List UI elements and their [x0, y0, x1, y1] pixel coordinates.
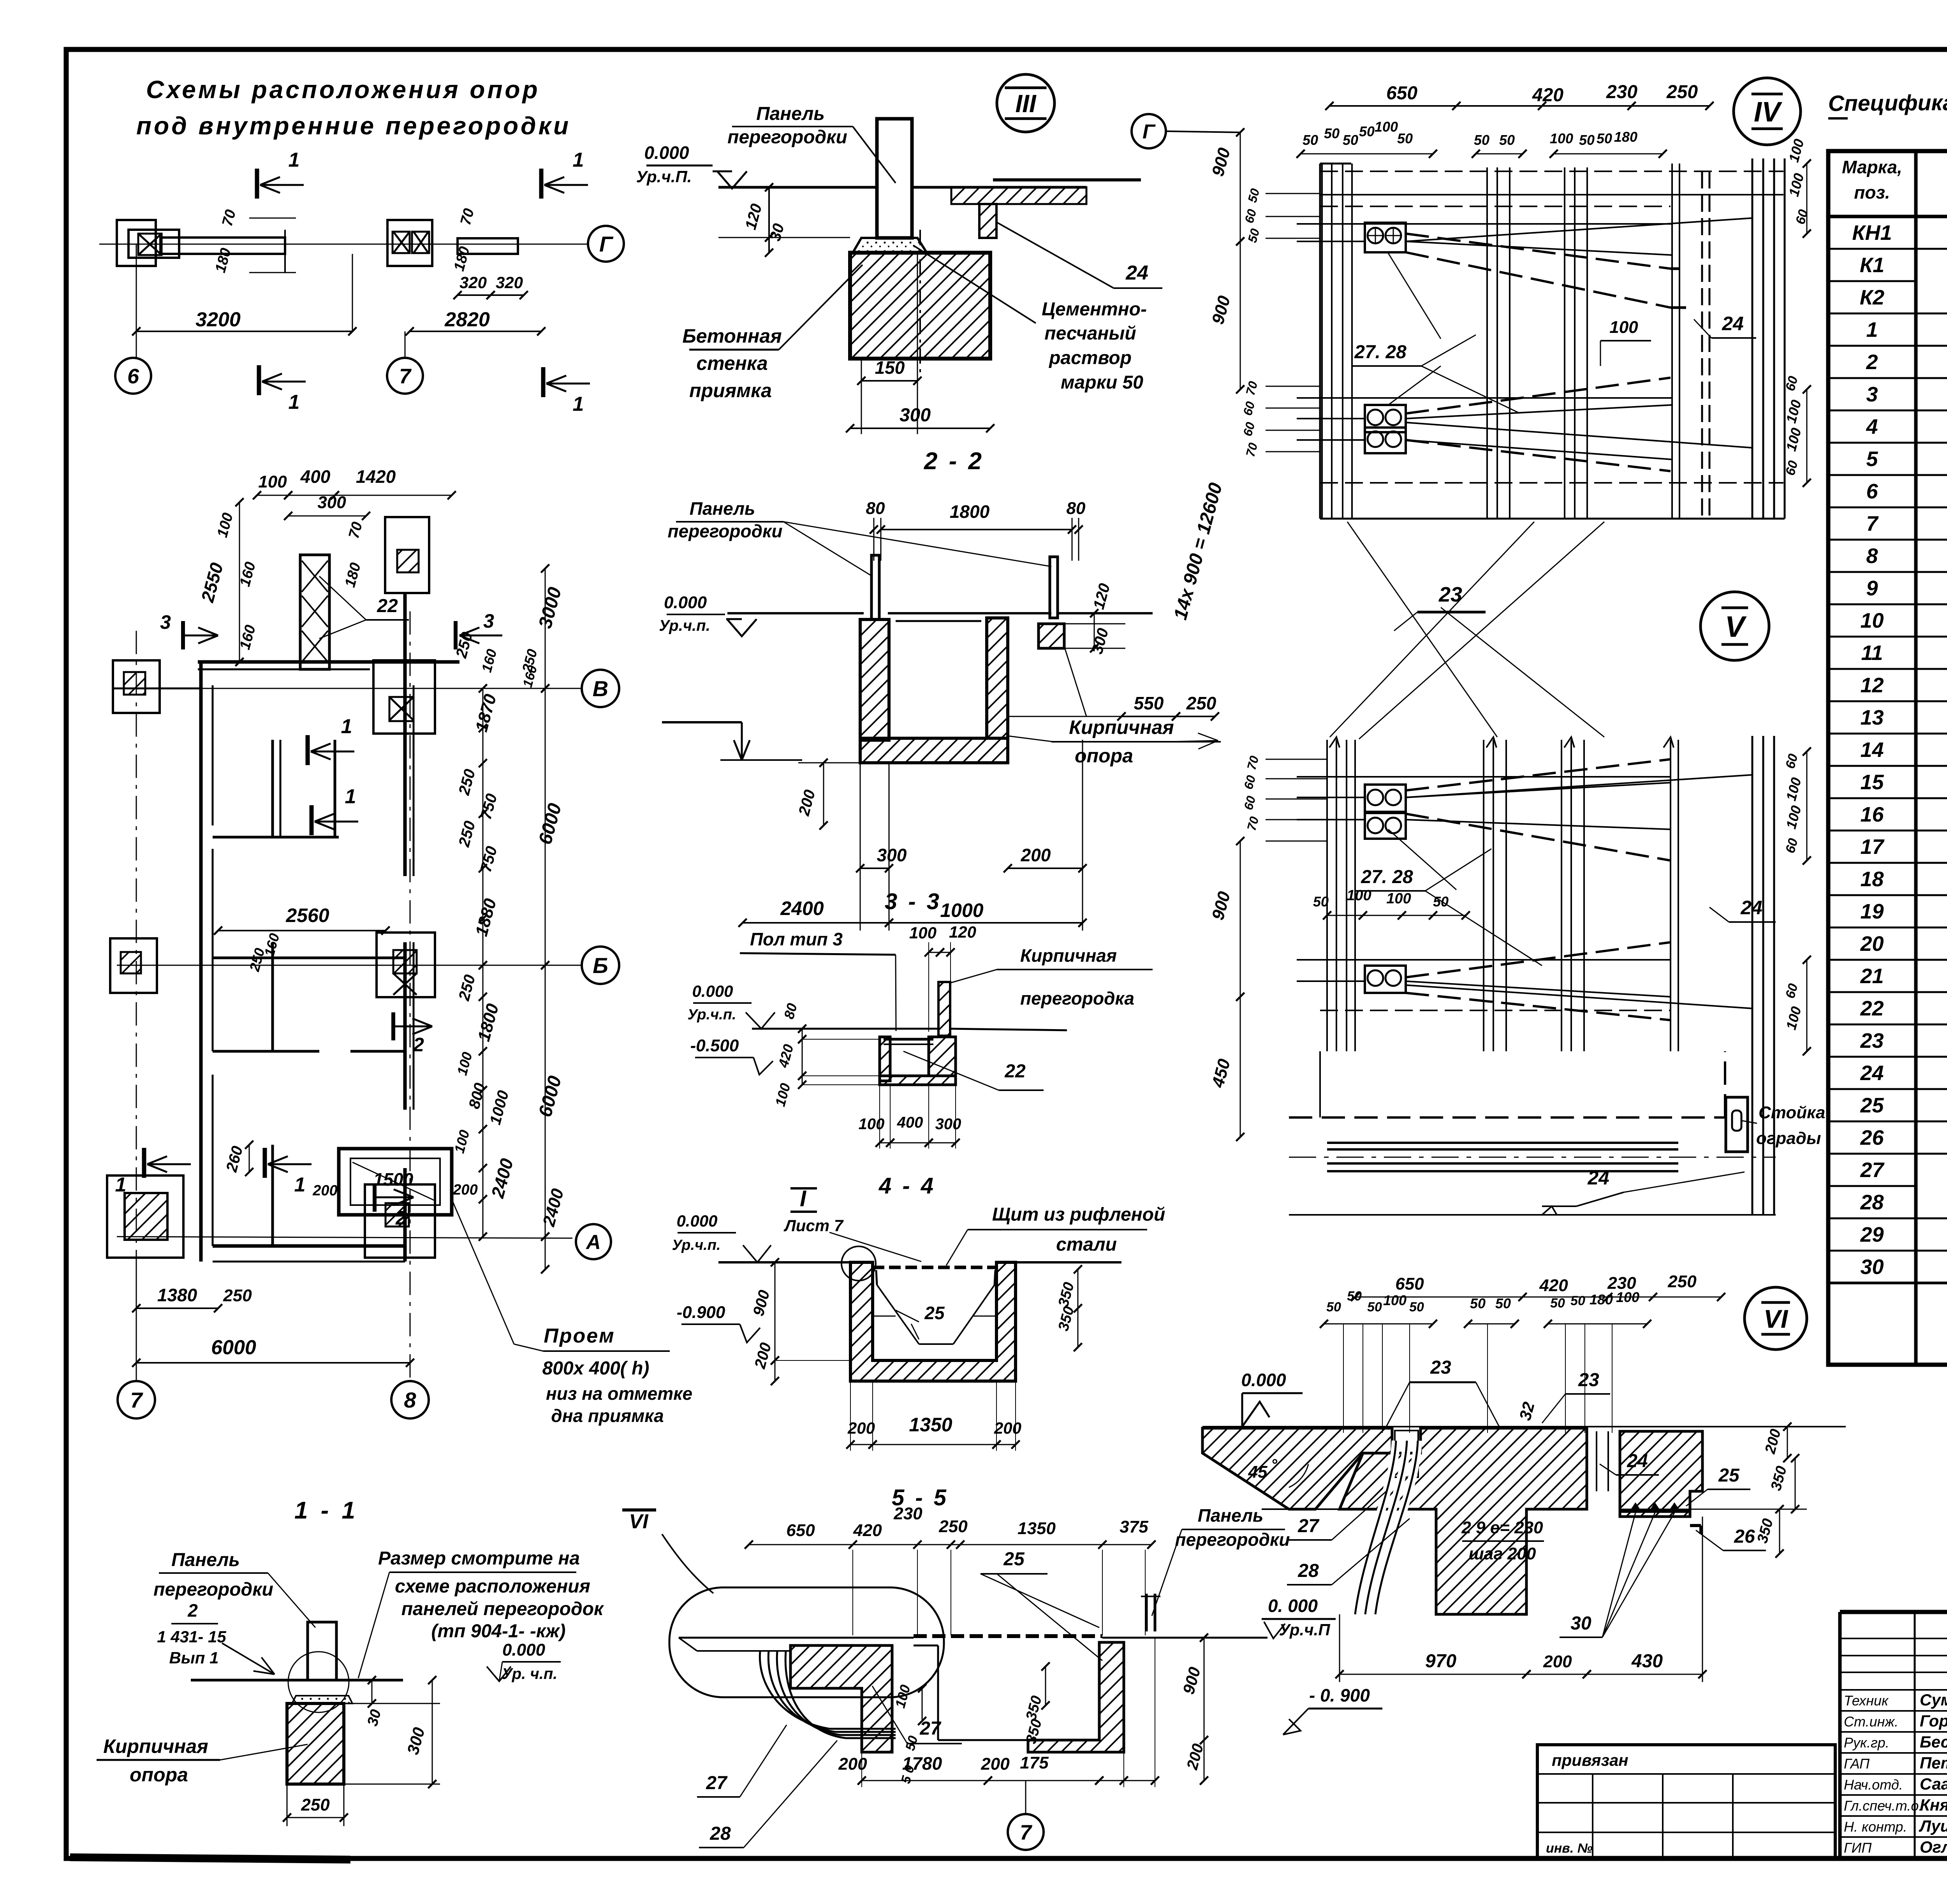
svg-text:100: 100	[859, 1116, 885, 1133]
internal partitions	[271, 740, 274, 837]
svg-text:50: 50	[1550, 1296, 1565, 1311]
A axis	[117, 1237, 572, 1238]
svg-text:18: 18	[1860, 868, 1884, 891]
svg-text:1: 1	[573, 149, 584, 171]
svg-text:26: 26	[1860, 1126, 1884, 1149]
svg-text:250: 250	[1666, 82, 1698, 102]
svg-text:Саакьянц: Саакьянц	[1920, 1775, 1947, 1793]
svg-text:550: 550	[1134, 693, 1164, 713]
A wall	[213, 1244, 405, 1248]
svg-text:17: 17	[1860, 835, 1885, 859]
svg-text:200: 200	[838, 1754, 867, 1774]
opening rect	[339, 1149, 452, 1215]
svg-text:1350: 1350	[1018, 1519, 1056, 1538]
svg-text:27. 28: 27. 28	[1361, 867, 1413, 887]
svg-text:7: 7	[399, 364, 412, 388]
svg-text:24: 24	[1860, 1061, 1884, 1085]
svg-text:50: 50	[1495, 1295, 1511, 1311]
svg-text:инв. №: инв. №	[1546, 1841, 1593, 1856]
svg-text:-0.500: -0.500	[690, 1036, 739, 1055]
IV bolt group top	[1365, 223, 1406, 252]
svg-text:28: 28	[709, 1823, 731, 1844]
svg-text:приямка: приямка	[689, 380, 772, 401]
svg-text:21: 21	[1860, 964, 1884, 988]
svg-text:Ур.ч.п.: Ур.ч.п.	[659, 617, 710, 634]
right dim chain A	[482, 688, 484, 965]
pit inner lines 5-5	[937, 1645, 939, 1740]
IV horizontal chords	[1297, 223, 1672, 225]
svg-text:24: 24	[1722, 313, 1744, 334]
svg-text:перегородка: перегородка	[1020, 988, 1134, 1008]
svg-text:10: 10	[1860, 609, 1884, 632]
pit walls 5-5	[790, 1645, 892, 1752]
svg-text:Ур.ч.п.: Ур.ч.п.	[687, 1007, 736, 1023]
svg-text:430: 430	[1631, 1651, 1663, 1672]
svg-text:стали: стали	[1056, 1234, 1117, 1255]
svg-text:45: 45	[1248, 1462, 1267, 1482]
section flag 1 bottom-right	[541, 367, 546, 397]
svg-text:50: 50	[1347, 1289, 1362, 1304]
B axis circle Б	[117, 965, 582, 966]
svg-text:0.000: 0.000	[1241, 1370, 1286, 1390]
scheme axis line	[99, 244, 588, 245]
IV top dim chain	[1329, 105, 1709, 107]
svg-text:1: 1	[341, 715, 352, 738]
V lower dashed region	[1289, 1116, 1725, 1119]
svg-text:Н. контр.: Н. контр.	[1844, 1819, 1907, 1835]
svg-text:IV: IV	[1754, 97, 1783, 128]
svg-text:24: 24	[1740, 897, 1762, 919]
Б wall	[213, 957, 405, 959]
IV bottom edge	[1320, 518, 1785, 520]
svg-text:80: 80	[866, 499, 885, 518]
svg-text:30: 30	[1860, 1255, 1884, 1279]
svg-text:20: 20	[1860, 932, 1884, 956]
floor lines 4-4	[718, 1261, 850, 1263]
svg-text:30: 30	[1570, 1613, 1591, 1634]
svg-text:I: I	[800, 1186, 807, 1211]
svg-text:2: 2	[1866, 350, 1878, 374]
svg-text:650: 650	[786, 1521, 815, 1540]
svg-text:8: 8	[404, 1388, 416, 1412]
svg-text:23: 23	[1430, 1357, 1451, 1378]
svg-text:22: 22	[377, 596, 398, 616]
svg-text:V: V	[1725, 610, 1747, 643]
VI channel 24	[1586, 1427, 1588, 1509]
IV bolt group mid	[1365, 405, 1406, 432]
svg-text:1000: 1000	[940, 899, 983, 921]
svg-text:1 431- 15: 1 431- 15	[157, 1628, 226, 1646]
axis circle Г top	[588, 226, 624, 262]
svg-text:7: 7	[130, 1388, 143, 1412]
svg-text:°: °	[1271, 1456, 1278, 1473]
svg-text:под внутренние перегород: под внутренние перегородки	[136, 112, 571, 140]
svg-text:24: 24	[1587, 1167, 1609, 1189]
svg-text:схеме расположения: схеме расположения	[395, 1576, 590, 1597]
svg-text:Бетонная: Бетонная	[682, 325, 782, 347]
sill bar right	[458, 238, 518, 254]
axis circle 7 5-5	[1008, 1814, 1044, 1850]
V mid dim 50 100 100 50	[1327, 915, 1466, 916]
svg-text:Пол тип 3: Пол тип 3	[750, 929, 843, 949]
svg-text:420: 420	[1532, 85, 1563, 106]
VI slab left	[1202, 1428, 1392, 1509]
svg-text:50: 50	[1579, 132, 1595, 148]
axis circle 6	[115, 358, 151, 394]
section flags plan	[306, 735, 310, 765]
svg-text:марки 50: марки 50	[1061, 372, 1143, 393]
svg-text:200: 200	[312, 1183, 337, 1199]
svg-text:150: 150	[875, 357, 905, 378]
pit 3-3	[880, 1037, 890, 1081]
section flag 1 top-left	[255, 169, 259, 199]
svg-text:III: III	[1015, 90, 1037, 118]
dim 550 250	[1121, 716, 1176, 717]
svg-text:400: 400	[897, 1114, 923, 1131]
brick pier 1-1	[287, 1703, 344, 1784]
floor line 1-1	[191, 1679, 308, 1682]
svg-text:1: 1	[573, 393, 584, 415]
svg-text:100: 100	[1609, 318, 1638, 337]
bottom dims 3-3	[880, 1142, 890, 1144]
svg-text:100: 100	[1616, 1289, 1639, 1305]
svg-text:100: 100	[1383, 1292, 1407, 1308]
left outer wall	[199, 662, 203, 1262]
svg-text:50: 50	[1367, 1300, 1382, 1314]
circle V	[1701, 592, 1769, 660]
dim 120 30	[768, 187, 770, 253]
svg-text:шаг 200: шаг 200	[1469, 1544, 1536, 1563]
svg-text:VI: VI	[1764, 1304, 1789, 1333]
svg-text:А: А	[585, 1231, 601, 1254]
title block	[1840, 1610, 1947, 1614]
svg-text:300: 300	[900, 405, 931, 426]
svg-text:0. 000: 0. 000	[1268, 1596, 1318, 1616]
svg-text:К1: К1	[1860, 253, 1884, 277]
svg-text:420: 420	[1539, 1276, 1568, 1295]
svg-text:привязан: привязан	[1552, 1751, 1628, 1769]
svg-text:КН1: КН1	[1852, 221, 1892, 245]
svg-text:13: 13	[1860, 706, 1884, 729]
svg-text:панелей перегородок: панелей перегородок	[401, 1599, 604, 1619]
svg-text:Кирпичная: Кирпичная	[103, 1735, 208, 1757]
V chords top	[1297, 776, 1671, 778]
svg-text:200: 200	[1021, 845, 1051, 865]
svg-text:Цементно-: Цементно-	[1042, 299, 1147, 320]
svg-text:Ур.ч.п.: Ур.ч.п.	[672, 1237, 720, 1253]
svg-text:7: 7	[1866, 512, 1879, 535]
VI top dims	[1355, 1297, 1721, 1298]
svg-text:320: 320	[496, 273, 523, 292]
svg-text:50: 50	[1499, 132, 1515, 148]
svg-text:1: 1	[289, 149, 300, 171]
svg-text:1780: 1780	[902, 1753, 942, 1774]
svg-text:Б: Б	[593, 953, 608, 978]
svg-text:50: 50	[1303, 132, 1318, 148]
svg-text:0.000: 0.000	[676, 1212, 717, 1230]
svg-text:22: 22	[1860, 997, 1884, 1020]
svg-text:29: 29	[1860, 1223, 1884, 1246]
svg-text:Марка,: Марка,	[1842, 157, 1902, 177]
bottom dims 2-2	[860, 868, 889, 869]
right dim chain B	[545, 688, 546, 965]
svg-text:Петровский: Петровский	[1920, 1754, 1947, 1772]
svg-text:2400: 2400	[780, 897, 824, 919]
right pier III	[979, 204, 996, 238]
svg-text:22: 22	[1004, 1061, 1026, 1082]
svg-text:23: 23	[1860, 1029, 1884, 1052]
axis circle Г right	[1132, 114, 1166, 148]
svg-text:Ст.инж.: Ст.инж.	[1844, 1714, 1898, 1730]
svg-text:ограды: ограды	[1756, 1129, 1821, 1148]
svg-text:2: 2	[413, 1034, 424, 1056]
circle III	[997, 74, 1054, 132]
svg-text:перегородки: перегородки	[727, 127, 847, 148]
svg-text:Нач.отд.: Нач.отд.	[1844, 1777, 1903, 1793]
left column block row1	[113, 660, 160, 713]
svg-text:3 - 3: 3 - 3	[885, 889, 942, 914]
svg-text:100: 100	[258, 472, 287, 491]
svg-text:Ур.ч.П: Ур.ч.П	[1279, 1621, 1330, 1639]
axis circle 7 plan	[118, 1381, 155, 1418]
svg-text:песчаный: песчаный	[1044, 323, 1136, 344]
svg-text:опора: опора	[1075, 745, 1133, 767]
svg-text:Кирпичная: Кирпичная	[1020, 945, 1117, 966]
rounded vault 5-5	[669, 1587, 944, 1697]
svg-text:Оглышев: Оглышев	[1920, 1838, 1947, 1856]
svg-text:6: 6	[127, 364, 139, 388]
svg-text:Луценко: Луценко	[1919, 1817, 1947, 1835]
svg-text:180: 180	[1614, 129, 1637, 145]
attachment stamp table	[1537, 1745, 1835, 1858]
svg-text:230: 230	[893, 1504, 922, 1523]
VI slab main	[1340, 1428, 1587, 1614]
svg-text:420: 420	[853, 1521, 882, 1540]
svg-text:Гл.спеч.т.о.: Гл.спеч.т.о.	[1844, 1798, 1922, 1814]
svg-text:4 - 4: 4 - 4	[878, 1173, 936, 1198]
svg-text:50: 50	[1343, 132, 1358, 148]
post 5-5	[1145, 1594, 1148, 1631]
V bottom line	[1289, 1214, 1776, 1216]
pipes 5-5	[760, 1651, 829, 1729]
signature table	[1840, 1638, 1947, 1639]
svg-text:Ур.ч.П.: Ур.ч.П.	[636, 167, 692, 186]
Б column blocks	[110, 938, 157, 993]
svg-text:0.000: 0.000	[692, 982, 733, 1000]
svg-text:28: 28	[1860, 1191, 1884, 1214]
svg-text:15: 15	[1860, 771, 1884, 794]
dim 120 300 right	[1094, 613, 1095, 648]
svg-text:50: 50	[1409, 1300, 1424, 1314]
mortar pad	[853, 238, 927, 253]
dashed top slab 5-5	[914, 1634, 1102, 1638]
corner arrow 2-2	[662, 721, 742, 723]
svg-text:Стойка: Стойка	[1759, 1103, 1825, 1122]
svg-text:1: 1	[289, 391, 300, 414]
sill bar left	[160, 238, 285, 254]
svg-text:перегородки: перегородки	[668, 521, 783, 541]
dim 300	[850, 428, 990, 429]
svg-text:19: 19	[1860, 900, 1884, 923]
svg-text:К2: К2	[1860, 286, 1884, 309]
svg-text:2560: 2560	[285, 904, 329, 926]
mortar pad 1-1	[292, 1696, 352, 1703]
svg-text:50: 50	[1570, 1293, 1585, 1308]
svg-text:ГИП: ГИП	[1844, 1840, 1872, 1856]
svg-text:80: 80	[1067, 499, 1086, 518]
dim 320 320	[458, 294, 491, 296]
border re-inked segment	[70, 1857, 350, 1860]
svg-text:Кирпичная: Кирпичная	[1069, 716, 1174, 738]
floor line 2-2	[727, 612, 864, 614]
svg-text:5: 5	[1866, 447, 1878, 471]
svg-text:1800: 1800	[950, 502, 990, 522]
svg-text:Горская: Горская	[1920, 1712, 1947, 1730]
svg-text:200: 200	[452, 1182, 477, 1198]
svg-text:Щит из рифленой: Щит из рифленой	[992, 1204, 1165, 1225]
VI bottom dims	[1340, 1674, 1526, 1675]
svg-text:250: 250	[1667, 1272, 1697, 1291]
svg-text:27: 27	[706, 1773, 728, 1793]
right floor slab III	[951, 187, 1086, 204]
svg-text:50: 50	[1597, 130, 1612, 146]
svg-text:Панель: Панель	[756, 104, 825, 124]
svg-text:1: 1	[1866, 318, 1878, 341]
vertical axis lines plan	[136, 631, 137, 1380]
svg-text:1500: 1500	[373, 1169, 414, 1190]
VI right block	[1620, 1431, 1702, 1517]
section flag 1 top-right	[539, 169, 544, 199]
svg-text:50: 50	[1397, 130, 1413, 146]
section flag 1 bottom-left	[257, 365, 261, 395]
svg-text:200: 200	[1543, 1652, 1572, 1671]
svg-text:Лист 7: Лист 7	[783, 1216, 844, 1235]
svg-text:25: 25	[1003, 1549, 1025, 1570]
svg-text:100: 100	[1550, 130, 1573, 146]
svg-text:3: 3	[483, 610, 494, 632]
svg-text:26: 26	[1734, 1526, 1755, 1547]
IV top boundary dashed	[1320, 171, 1783, 172]
svg-text:250: 250	[938, 1517, 968, 1536]
svg-text:поз.: поз.	[1854, 182, 1890, 202]
top-right column block	[385, 517, 429, 593]
svg-text:11: 11	[1861, 641, 1883, 665]
svg-text:14: 14	[1860, 738, 1884, 762]
svg-text:2820: 2820	[444, 308, 490, 331]
axis circle 8 plan	[391, 1381, 429, 1418]
svg-text:6000: 6000	[211, 1336, 256, 1359]
svg-text:2 9 е= 230: 2 9 е= 230	[1461, 1518, 1543, 1537]
level line 3-3	[752, 1028, 938, 1030]
circle IV	[1734, 78, 1801, 145]
pit walls 2-2	[860, 619, 889, 740]
svg-text:Схемы расположения опор: Схемы расположения опор	[146, 76, 540, 104]
svg-text:3: 3	[1866, 383, 1878, 406]
panel column III	[877, 119, 912, 238]
svg-text:Рук.гр.: Рук.гр.	[1844, 1735, 1889, 1751]
svg-text:50: 50	[1470, 1295, 1486, 1311]
svg-text:ГАП: ГАП	[1844, 1756, 1870, 1772]
pit 4-4	[850, 1262, 1016, 1381]
V bottom bars	[1327, 1142, 1678, 1144]
svg-text:375: 375	[1120, 1517, 1148, 1536]
IV main frame	[1319, 164, 1321, 519]
svg-text:200: 200	[847, 1419, 875, 1437]
svg-text:24: 24	[1627, 1451, 1648, 1471]
svg-text:0.000: 0.000	[664, 593, 707, 612]
svg-text:1 - 1: 1 - 1	[294, 1497, 358, 1524]
svg-text:стенка: стенка	[696, 352, 768, 374]
axis circle Г IV	[1166, 131, 1240, 132]
svg-text:Панель: Панель	[1198, 1505, 1264, 1526]
panel strip plan	[300, 555, 329, 669]
svg-text:Княшко: Княшко	[1920, 1796, 1947, 1814]
svg-text:250: 250	[301, 1795, 330, 1814]
plan bottom dims	[136, 1307, 218, 1309]
svg-text:3200: 3200	[195, 308, 241, 331]
axis circle A 4-4	[576, 1224, 611, 1259]
svg-text:27: 27	[1297, 1516, 1320, 1536]
svg-text:Панель: Панель	[171, 1550, 240, 1570]
dim 150	[861, 380, 917, 382]
panel column 1-1	[308, 1622, 336, 1680]
dim 3200	[136, 331, 352, 332]
detail circle 4-4	[841, 1246, 876, 1281]
svg-text:8: 8	[1866, 544, 1878, 568]
svg-text:800х 400( h): 800х 400( h)	[542, 1358, 650, 1379]
svg-text:100: 100	[1347, 887, 1371, 904]
svg-text:1420: 1420	[356, 466, 396, 487]
svg-text:Размер смотрите на: Размер смотрите на	[378, 1548, 580, 1569]
svg-text:250: 250	[1186, 693, 1216, 713]
svg-text:Панель: Панель	[690, 498, 755, 519]
svg-text:-0.900: -0.900	[677, 1303, 725, 1322]
B axis wall	[198, 660, 459, 664]
svg-text:1380: 1380	[157, 1285, 197, 1305]
V diag braces	[1406, 759, 1671, 790]
axis line B	[117, 688, 582, 689]
svg-text:50: 50	[1313, 894, 1329, 910]
wall strip 3-3	[938, 982, 950, 1036]
V fence post	[1726, 1097, 1748, 1152]
svg-text:2: 2	[187, 1600, 198, 1621]
svg-text:Г: Г	[599, 232, 614, 256]
svg-text:175: 175	[1020, 1753, 1049, 1772]
svg-text:100: 100	[1375, 119, 1398, 135]
svg-text:300: 300	[317, 493, 346, 512]
svg-text:320: 320	[459, 273, 487, 292]
svg-text:3: 3	[160, 611, 171, 633]
svg-text:Бескорова: Бескорова	[1920, 1733, 1947, 1751]
bottom dims 5-5	[862, 1780, 988, 1781]
svg-text:50: 50	[1326, 1300, 1341, 1314]
svg-text:1: 1	[345, 785, 356, 808]
VI floor line	[1202, 1426, 1846, 1427]
svg-text:200: 200	[981, 1754, 1010, 1774]
svg-text:28: 28	[1297, 1561, 1319, 1581]
svg-text:2 - 2: 2 - 2	[924, 448, 984, 475]
svg-text:100: 100	[909, 924, 937, 942]
svg-text:27. 28: 27. 28	[1354, 342, 1407, 362]
floor line 5-5	[679, 1637, 914, 1639]
specification table	[1828, 151, 1947, 1365]
svg-text:250: 250	[223, 1286, 252, 1305]
V bolt groups	[1365, 785, 1406, 812]
connection X to V	[1347, 522, 1497, 737]
svg-text:12: 12	[1860, 674, 1884, 697]
floor line III	[718, 186, 878, 189]
svg-text:перегородки: перегородки	[153, 1579, 273, 1600]
